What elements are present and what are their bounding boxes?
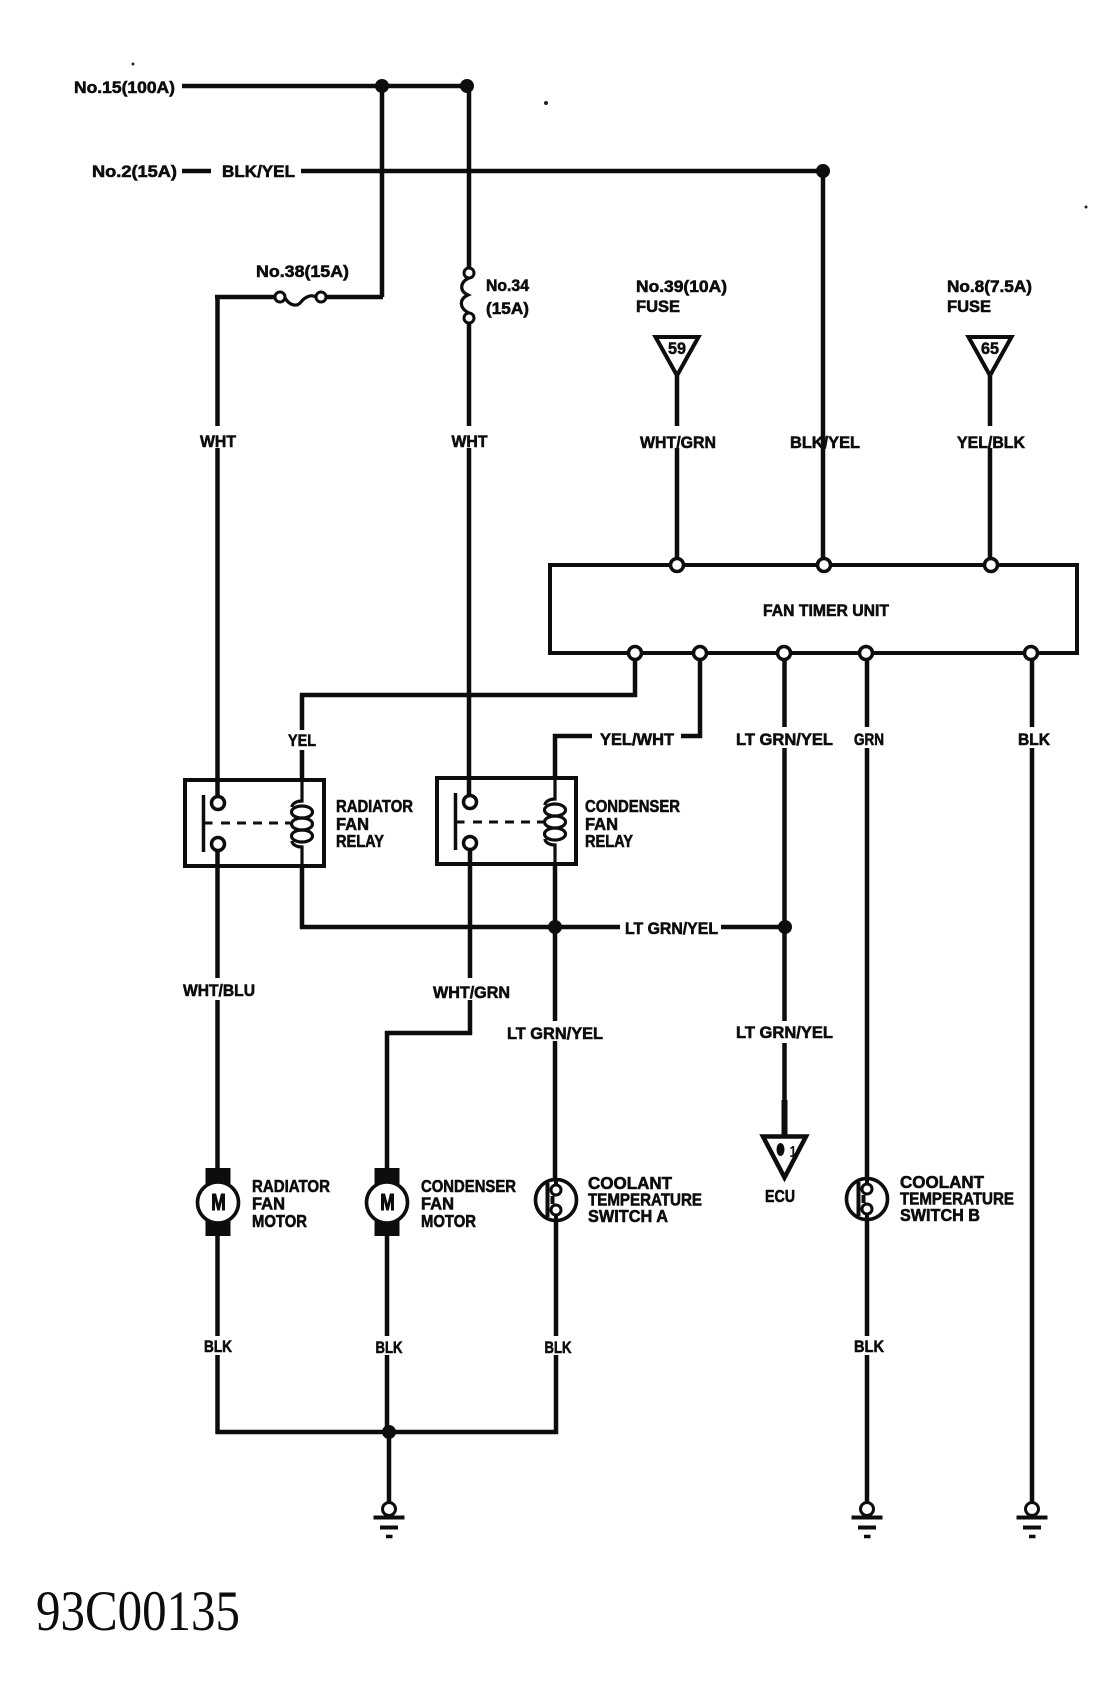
svg-text:BLK/YEL: BLK/YEL <box>790 433 860 452</box>
svg-text:YEL/BLK: YEL/BLK <box>957 433 1026 452</box>
wire BLK/YEL rail No.2 <box>182 171 823 566</box>
svg-text:SWITCH B: SWITCH B <box>900 1205 980 1225</box>
junction dot at rail x382 <box>375 79 389 93</box>
scan speck above No.15 label <box>132 63 135 66</box>
wire YEL/WHT from unit to condenser relay coil <box>555 652 700 778</box>
wire fuse 59 stem to fan timer unit <box>675 375 680 566</box>
wire main power rail No.15 <box>182 84 467 89</box>
junction dot LT GRN/YEL at ECU column <box>778 920 792 934</box>
wire center ground stem <box>387 1432 392 1502</box>
svg-text:RELAY: RELAY <box>585 831 633 851</box>
wire coolant switch A to ground bus <box>554 1221 559 1434</box>
svg-text:YEL: YEL <box>288 731 316 750</box>
junction dot at rail x467 <box>460 79 474 93</box>
svg-text:BLK: BLK <box>854 1337 885 1356</box>
svg-text:RELAY: RELAY <box>336 831 384 851</box>
fan timer unit bottom pin (YEL/WHT) <box>694 647 707 660</box>
svg-text:59: 59 <box>668 340 686 358</box>
svg-text:WHT/BLU: WHT/BLU <box>183 981 255 1000</box>
radiator relay switch contacts <box>212 797 225 851</box>
svg-text:MOTOR: MOTOR <box>421 1211 476 1231</box>
wire ground bus <box>216 1430 559 1435</box>
svg-text:M: M <box>380 1189 395 1215</box>
wire YEL from unit to radiator relay coil <box>302 652 635 780</box>
condenser relay switch tick and dashed actuator line <box>456 821 544 824</box>
svg-text:65: 65 <box>981 340 999 358</box>
svg-text:MOTOR: MOTOR <box>252 1211 307 1231</box>
svg-text:WHT/GRN: WHT/GRN <box>640 433 716 452</box>
svg-text:WHT/GRN: WHT/GRN <box>433 983 510 1002</box>
radiator fan relay box <box>185 780 324 866</box>
wire BLK column far right <box>1030 652 1035 1502</box>
svg-text:No.2(15A): No.2(15A) <box>92 162 177 181</box>
wire GRN column to coolant switch B <box>865 652 870 1178</box>
fan timer unit box <box>550 565 1077 653</box>
fan timer unit top pin (WHT/GRN) <box>671 559 684 572</box>
ground symbol far right <box>1017 1503 1048 1537</box>
radiator relay switch bar <box>202 795 206 852</box>
svg-text:FAN TIMER UNIT: FAN TIMER UNIT <box>763 601 890 620</box>
svg-text:(15A): (15A) <box>486 299 529 318</box>
junction dot ground bus <box>382 1425 396 1439</box>
condenser fan motor <box>375 1168 400 1236</box>
svg-text:WHT: WHT <box>200 432 237 451</box>
condenser relay switch contacts <box>464 796 477 850</box>
svg-text:LT GRN/YEL: LT GRN/YEL <box>736 1023 833 1042</box>
fan timer unit top pin (YEL/BLK) <box>985 559 998 572</box>
wire radiator relay switch output WHT/BLU <box>215 850 220 1170</box>
wire center WHT column (fuse No.34 branch) <box>467 86 472 795</box>
svg-text:M: M <box>211 1189 226 1215</box>
fuse No.38 terminal circles <box>275 292 285 302</box>
svg-text:No.15(100A): No.15(100A) <box>74 78 175 97</box>
svg-text:BLK: BLK <box>545 1338 573 1357</box>
fan timer unit bottom pin (LT GRN/YEL) <box>778 647 791 660</box>
wire condenser relay switch output WHT/GRN <box>387 850 470 1170</box>
coolant temperature switch B <box>847 1178 888 1220</box>
svg-text:No.8(7.5A): No.8(7.5A) <box>947 277 1032 296</box>
wire left WHT column upper <box>215 295 220 796</box>
fan timer unit bottom pin (GRN) <box>860 647 873 660</box>
junction dot LT GRN/YEL at switch A column <box>548 920 562 934</box>
wire condenser motor to ground bus <box>385 1235 390 1432</box>
fuse connector triangle 59 <box>656 337 699 376</box>
svg-text:WHT: WHT <box>452 432 489 451</box>
wire coolant switch B BLK to ground <box>865 1221 870 1502</box>
condenser fan relay box <box>437 778 576 864</box>
svg-text:1: 1 <box>790 1144 797 1161</box>
svg-text:GRN: GRN <box>854 730 884 749</box>
wire fuse 65 stem to fan timer unit <box>988 375 993 566</box>
fuse No.34 terminal circles <box>464 268 474 278</box>
svg-text:CONDENSER: CONDENSER <box>585 796 680 816</box>
svg-text:93C00135: 93C00135 <box>36 1580 240 1643</box>
svg-text:YEL/WHT: YEL/WHT <box>600 730 675 749</box>
svg-text:SWITCH A: SWITCH A <box>588 1206 668 1226</box>
wire LT GRN/YEL column to ECU <box>782 652 787 1136</box>
fuse connector triangle 65 <box>969 337 1012 376</box>
fuse No.38 element curve <box>285 296 316 305</box>
wire condenser coil to coolant switch A <box>553 864 558 1178</box>
coolant temperature switch A <box>536 1179 577 1221</box>
condenser relay coil <box>545 778 566 864</box>
svg-text:BLK: BLK <box>1018 730 1051 749</box>
wire radiator motor to ground bus <box>215 1235 220 1434</box>
radiator relay coil <box>292 780 313 866</box>
svg-text:FUSE: FUSE <box>636 297 680 316</box>
svg-text:ECU: ECU <box>765 1186 795 1206</box>
wire drop from rail to fuse No.38 <box>380 84 385 297</box>
scan speck center top <box>544 101 548 105</box>
svg-text:No.34: No.34 <box>486 276 530 295</box>
fuse No.34 element curve <box>461 278 469 313</box>
fan timer unit top pin (BLK/YEL) <box>818 559 831 572</box>
svg-text:BLK/YEL: BLK/YEL <box>222 162 295 181</box>
ground symbol switch B <box>852 1503 883 1537</box>
svg-text:BLK: BLK <box>204 1337 233 1356</box>
wire LT GRN/YEL link bar <box>302 866 785 927</box>
radiator fan motor <box>206 1168 231 1236</box>
ground symbol center <box>374 1503 405 1537</box>
fan timer unit bottom pin (YEL) <box>629 647 642 660</box>
junction dot BLK/YEL corner <box>816 164 830 178</box>
ECU connector triangle <box>763 1100 806 1178</box>
svg-text:LT GRN/YEL: LT GRN/YEL <box>625 919 718 938</box>
svg-text:LT GRN/YEL: LT GRN/YEL <box>507 1024 603 1043</box>
condenser relay switch bar <box>454 793 458 850</box>
fan timer unit bottom pin (BLK) <box>1025 647 1038 660</box>
svg-text:No.38(15A): No.38(15A) <box>256 262 349 281</box>
svg-text:No.39(10A): No.39(10A) <box>636 277 727 296</box>
wire fuse No.38 horizontal run <box>215 295 383 300</box>
svg-text:RADIATOR: RADIATOR <box>336 796 413 816</box>
svg-text:BLK: BLK <box>376 1338 404 1357</box>
scan speck right margin <box>1085 206 1088 209</box>
svg-text:LT GRN/YEL: LT GRN/YEL <box>736 730 833 749</box>
radiator relay switch tick and dashed actuator line <box>204 822 291 825</box>
svg-text:FUSE: FUSE <box>947 297 991 316</box>
